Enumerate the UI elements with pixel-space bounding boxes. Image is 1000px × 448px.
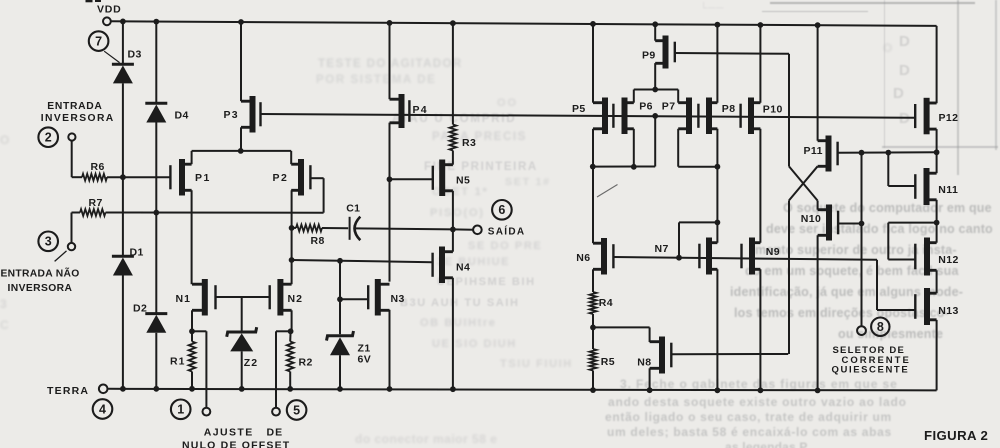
svg-text:D2: D2 — [133, 303, 147, 315]
svg-text:6V: 6V — [358, 353, 372, 365]
svg-text:2: 2 — [45, 131, 52, 145]
svg-text:N10: N10 — [801, 213, 821, 225]
svg-text:SAÍDA: SAÍDA — [488, 224, 526, 237]
svg-text:N11: N11 — [938, 184, 958, 196]
svg-text:6: 6 — [498, 203, 505, 217]
svg-text:ENTRADA NÃO: ENTRADA NÃO — [1, 267, 80, 280]
svg-text:VDD: VDD — [97, 3, 122, 15]
svg-text:N7: N7 — [655, 243, 669, 255]
svg-text:Z2: Z2 — [244, 357, 258, 369]
svg-text:P8: P8 — [722, 103, 736, 115]
svg-text:5: 5 — [293, 403, 300, 417]
svg-text:P12: P12 — [939, 112, 959, 124]
svg-text:AJUSTE: AJUSTE — [204, 427, 254, 439]
svg-text:8: 8 — [877, 320, 884, 334]
svg-text:3: 3 — [45, 235, 52, 249]
svg-text:P6: P6 — [639, 101, 653, 113]
svg-text:FIGURA 2: FIGURA 2 — [924, 428, 988, 443]
svg-text:N1: N1 — [176, 293, 191, 305]
svg-text:P5: P5 — [572, 103, 586, 115]
svg-text:P2: P2 — [273, 172, 289, 184]
svg-text:P7: P7 — [662, 101, 676, 113]
svg-text:P1: P1 — [195, 172, 211, 184]
svg-text:1: 1 — [177, 403, 184, 417]
svg-text:N12: N12 — [938, 254, 958, 266]
svg-text:N9: N9 — [766, 246, 780, 258]
svg-text:R3: R3 — [462, 137, 476, 149]
svg-text:INVERSORA: INVERSORA — [41, 113, 115, 124]
svg-text:D4: D4 — [175, 110, 189, 122]
svg-text:N4: N4 — [456, 261, 470, 273]
svg-text:NULO DE OFFSET: NULO DE OFFSET — [182, 439, 290, 448]
svg-text:D1: D1 — [130, 247, 144, 259]
svg-text:P10: P10 — [763, 104, 783, 116]
svg-text:DE: DE — [267, 427, 284, 439]
svg-text:ENTRADA: ENTRADA — [47, 101, 102, 112]
svg-text:C1: C1 — [346, 203, 360, 215]
svg-text:P11: P11 — [804, 145, 823, 157]
svg-text:QUIESCENTE: QUIESCENTE — [832, 365, 910, 376]
svg-text:INVERSORA: INVERSORA — [8, 283, 73, 294]
svg-text:N2: N2 — [288, 293, 303, 305]
svg-text:R6: R6 — [91, 161, 105, 173]
svg-text:P9: P9 — [642, 49, 656, 61]
svg-text:N13: N13 — [938, 305, 958, 317]
svg-text:7: 7 — [95, 34, 102, 48]
svg-text:TERRA: TERRA — [47, 385, 89, 397]
svg-text:R4: R4 — [599, 297, 613, 309]
svg-text:R7: R7 — [89, 197, 103, 209]
svg-text:N5: N5 — [456, 174, 470, 186]
svg-text:R5: R5 — [601, 356, 615, 368]
svg-text:N6: N6 — [576, 252, 590, 264]
svg-text:P4: P4 — [413, 104, 428, 116]
svg-text:N8: N8 — [637, 357, 651, 369]
svg-text:R2: R2 — [299, 357, 313, 369]
svg-text:N3: N3 — [391, 293, 405, 305]
svg-text:R8: R8 — [311, 235, 325, 247]
svg-text:4: 4 — [99, 402, 106, 416]
svg-text:P3: P3 — [224, 109, 239, 121]
svg-text:R1: R1 — [170, 356, 185, 368]
svg-text:D3: D3 — [128, 49, 142, 61]
